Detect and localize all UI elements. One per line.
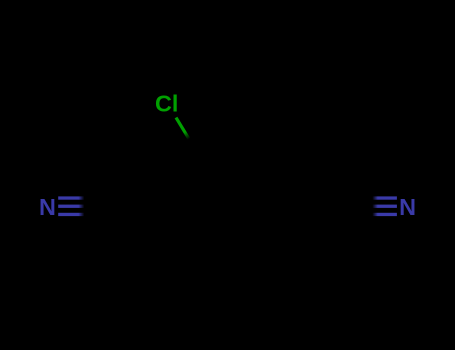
aromatic double bond C4=C5 (inner line, black) xyxy=(256,206,279,246)
bond C2-Cl green half xyxy=(176,118,189,139)
benzene ring C1-C2-C3-C4-C5-C6 (black bonds, invisible on black bg) xyxy=(166,154,286,258)
svg-text:Cl: Cl xyxy=(155,90,178,116)
svg-text:N: N xyxy=(39,194,56,220)
triple bond C#N left (blue halves) xyxy=(58,196,84,216)
triple bond C#N right (blue halves) xyxy=(372,196,397,216)
svg-text:N: N xyxy=(399,194,416,220)
bond C2-Cl black half (invisible) xyxy=(189,139,196,154)
aromatic double bond C6=C1 (inner line, black) xyxy=(180,212,203,252)
bond C4-C(nitrile) right (black, invisible) xyxy=(286,204,346,207)
aromatic double bond C2=C3 (inner line, black) xyxy=(204,158,250,161)
bond C1-C(nitrile) left (black, invisible) xyxy=(106,204,166,207)
